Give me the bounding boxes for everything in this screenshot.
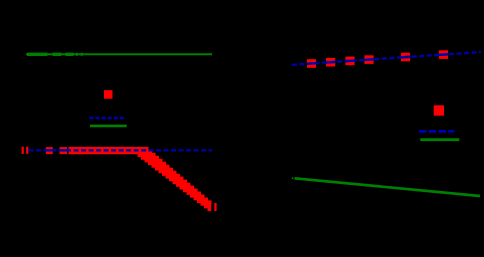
left panel red errorbar data — [22, 147, 68, 154]
left panel red dense band (flat then falling) — [69, 147, 212, 211]
left panel green curve — [26, 53, 213, 56]
right panel red errorbar markers — [307, 50, 448, 68]
right panel blue dash overlays on marker stems — [306, 54, 448, 64]
left panel last red errorbar — [214, 203, 216, 211]
right legend red square marker — [434, 105, 444, 115]
left legend red square marker — [104, 90, 113, 99]
left panel blue dash overlays on marker stems — [46, 149, 53, 151]
right legend blue dashed sample — [419, 130, 454, 133]
right panel blue dashed fit line — [292, 52, 481, 65]
left legend green solid sample — [90, 125, 127, 128]
right panel green line — [292, 177, 480, 196]
left panel blue dashed fit line — [29, 149, 212, 151]
left legend blue dashed sample — [89, 117, 125, 120]
right legend green solid sample — [420, 138, 459, 141]
